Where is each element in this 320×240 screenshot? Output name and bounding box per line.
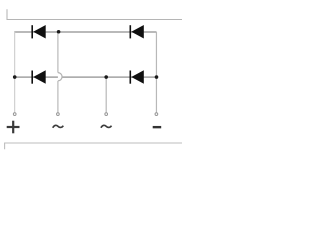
- terminal circle 1 (+): [13, 113, 16, 116]
- terminal circle 3 (~): [105, 113, 108, 116]
- junction second rail left (+): [13, 75, 17, 79]
- wire terminal 3 drop (~): [105, 77, 107, 113]
- terminal circle 4 (-): [155, 113, 158, 116]
- wire top rail: [14, 31, 156, 33]
- wire AC1 vertical upper (top junction down to hop): [57, 32, 59, 73]
- junction top rail / AC1: [57, 30, 61, 34]
- frame border top (bottom edge of box above, cropped): [7, 9, 182, 19]
- label ~ (terminal 2): [53, 125, 64, 127]
- wire second rail: [14, 76, 156, 78]
- frame border bottom (top edge of box below, cropped): [5, 143, 182, 149]
- label + (terminal 1): [7, 121, 20, 134]
- label ~ (terminal 3): [101, 125, 112, 127]
- terminal circle 2 (~): [57, 113, 60, 116]
- wire hop (crossover arc over second rail): [58, 73, 62, 81]
- wire AC1 vertical lower (hop down to terminal 2): [57, 81, 59, 113]
- wire left vertical (+ node, top rail down to terminal 1): [14, 32, 16, 113]
- junction second rail right (-): [155, 75, 159, 79]
- diode D4 (bottom-right, cathode left): [130, 70, 144, 84]
- label - (terminal 4): [153, 126, 162, 128]
- wire right vertical (- node, top rail down to terminal 4): [155, 32, 157, 113]
- diode D3 (bottom-left, cathode left): [32, 70, 46, 84]
- diode D2 (top-right, cathode left): [130, 25, 144, 39]
- diode D1 (top-left, cathode left): [32, 25, 46, 39]
- junction second rail / AC2: [104, 75, 108, 79]
